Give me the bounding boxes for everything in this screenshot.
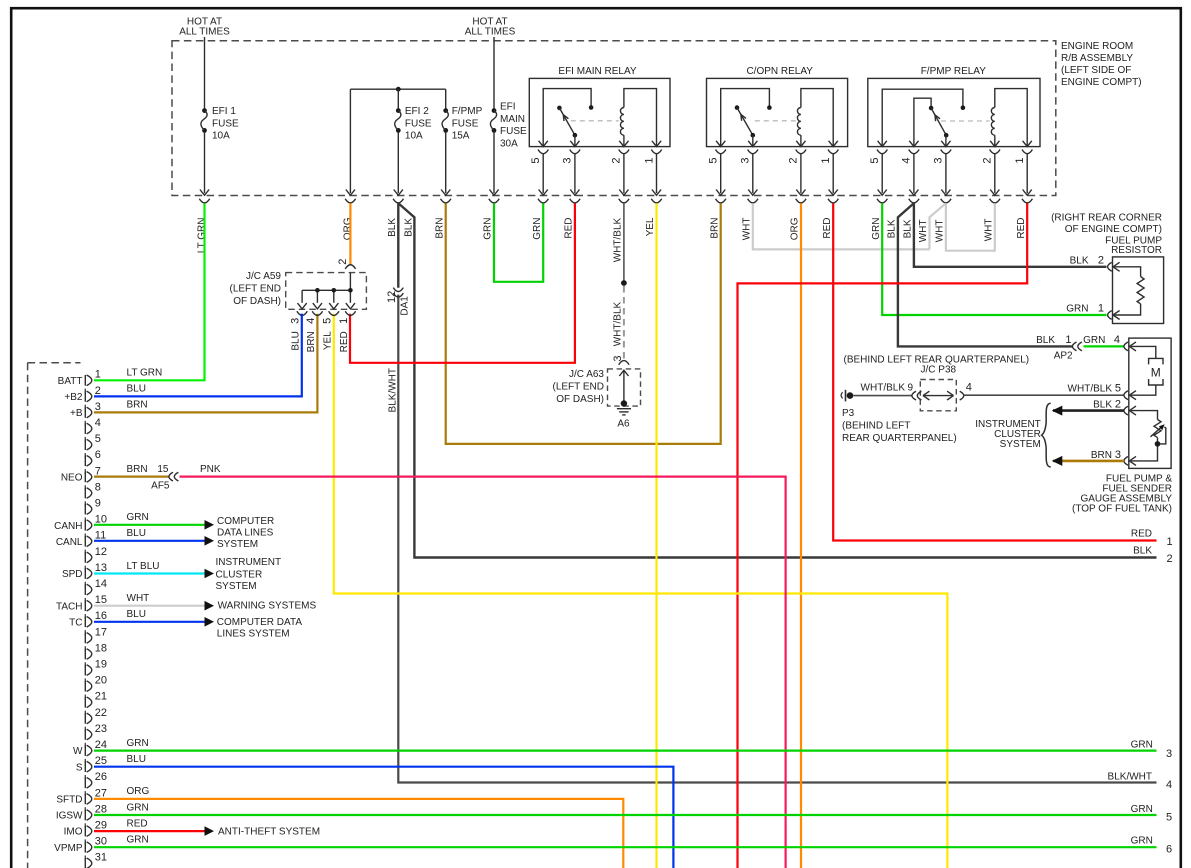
DA1 name label — [400, 296, 411, 316]
wire BLU CANL — [94, 540, 205, 542]
relay pin 1 exit at x=656.5 — [643, 141, 661, 203]
WHT/BLK rotated label upper — [613, 217, 624, 262]
svg-text:SPD: SPD — [62, 569, 83, 580]
right edge labels BLK/WHT 4 — [1108, 772, 1173, 792]
svg-text:2: 2 — [611, 158, 623, 164]
C/OPN relay switch blade — [737, 108, 753, 136]
fuse F/PMP 15A — [442, 108, 448, 133]
svg-text:MAIN: MAIN — [500, 114, 525, 125]
EFI MAIN fuse label — [500, 101, 527, 149]
svg-text:1: 1 — [643, 158, 655, 164]
warning systems label — [218, 601, 317, 612]
C/OPN relay switch bracket pin5 — [721, 89, 770, 147]
svg-text:9: 9 — [908, 382, 914, 393]
svg-text:ALL TIMES: ALL TIMES — [179, 26, 230, 37]
svg-text:1: 1 — [1167, 536, 1173, 548]
relay pin 3 exit at x=752.8 — [740, 141, 758, 203]
wire EFI 1 fuse to R/B exit — [204, 133, 206, 194]
svg-text:19: 19 — [95, 659, 107, 671]
J/C A59 exit arrow x=333.8 — [329, 303, 339, 315]
svg-text:4: 4 — [1114, 334, 1120, 346]
svg-text:+B2: +B2 — [64, 392, 83, 403]
wire WHT TACH — [94, 605, 205, 607]
WHT/BLK rotated label lower — [612, 301, 623, 346]
svg-text:30A: 30A — [500, 139, 518, 150]
svg-text:RED: RED — [127, 818, 148, 829]
relay F/PMP box — [868, 66, 1040, 147]
svg-text:RED: RED — [564, 218, 575, 239]
arrow at R/B exit EFI1 — [200, 190, 209, 196]
svg-text:OF ENGINE COMPT): OF ENGINE COMPT) — [1065, 224, 1162, 235]
svg-text:2: 2 — [1098, 255, 1104, 267]
EFI MAIN relay link dashed — [571, 120, 619, 122]
wire WHT F/PMP pin3 diagonal branch — [930, 203, 946, 249]
svg-text:GRN: GRN — [127, 802, 149, 813]
svg-text:BLU: BLU — [127, 609, 146, 620]
fuel sender wiper arrow — [1151, 424, 1166, 444]
hot at all times label (right) — [465, 16, 516, 37]
svg-text:3: 3 — [1166, 748, 1172, 760]
svg-text:COMPUTER DATA: COMPUTER DATA — [217, 617, 303, 628]
right edge labels GRN 5 — [1131, 804, 1173, 824]
wire GRN AP2 to fuel pump pin 4 — [1084, 345, 1125, 347]
svg-text:TACH: TACH — [56, 601, 82, 612]
F/PMP relay bracket pin4 — [914, 98, 931, 146]
wire LT BLU SPD — [94, 572, 205, 574]
arrow at R/B exit F/PMP fuse — [441, 190, 450, 196]
svg-text:BLK: BLK — [403, 218, 414, 237]
svg-text:INSTRUMENT: INSTRUMENT — [216, 557, 282, 568]
svg-text:SYSTEM: SYSTEM — [217, 539, 258, 550]
rotated wire colour labels below R/B box — [197, 217, 1027, 253]
svg-text:A6: A6 — [617, 419, 630, 430]
J/C P38 title — [921, 365, 957, 376]
svg-text:31: 31 — [95, 852, 107, 864]
svg-text:2: 2 — [982, 158, 994, 164]
svg-text:4: 4 — [966, 381, 972, 393]
P3 labels — [842, 408, 957, 444]
wire GRN F/PMP pin5 to resistor pin 1 — [882, 203, 1106, 315]
svg-text:RESISTOR: RESISTOR — [1111, 245, 1162, 256]
svg-text:R/B ASSEMBLY: R/B ASSEMBLY — [1061, 53, 1133, 64]
svg-text:YEL: YEL — [322, 331, 333, 350]
C/OPN relay pin3 stub — [752, 135, 754, 146]
junction dot on fuse bus — [396, 87, 401, 92]
J/C A59 exit arrow x=350.4 — [345, 303, 355, 315]
svg-text:BLK/WHT: BLK/WHT — [388, 368, 399, 412]
svg-text:BLU: BLU — [127, 528, 146, 539]
wire RED IMO to anti-theft — [94, 830, 205, 832]
svg-text:CLUSTER: CLUSTER — [216, 569, 263, 580]
svg-text:24: 24 — [95, 739, 107, 751]
svg-text:FUSE: FUSE — [405, 118, 432, 129]
svg-text:RED: RED — [339, 331, 350, 352]
svg-text:3: 3 — [933, 158, 945, 164]
junction connector J/C A59 dashed box — [286, 273, 367, 310]
svg-text:S: S — [76, 762, 83, 773]
svg-text:WHT/BLK: WHT/BLK — [613, 217, 624, 262]
svg-text:NEO: NEO — [61, 473, 83, 484]
relay pin 2 exit at x=994.8 — [982, 141, 1000, 203]
svg-text:30: 30 — [95, 836, 107, 848]
resistor pin 2 arc+arrow — [1108, 262, 1120, 271]
svg-text:LINES SYSTEM: LINES SYSTEM — [217, 629, 290, 640]
C/OPN relay link dashed — [755, 120, 796, 122]
BLK/WHT rotated label — [388, 368, 399, 412]
wire BLU J/C A59 pin3 upper stub — [301, 314, 303, 316]
J/C P38 entry arcs — [912, 391, 922, 400]
fuel pump pin arc y=410.6 — [1124, 406, 1136, 415]
C/OPN relay moving contact dot — [735, 105, 740, 110]
svg-text:1: 1 — [1014, 158, 1026, 164]
svg-text:5: 5 — [321, 318, 333, 324]
wire WHT/BLK J/C P38 to fuel pump pin 5 — [964, 394, 1125, 396]
computer data lines system label 2 — [217, 617, 303, 640]
wire BLU TC — [94, 621, 205, 623]
relay pin 5 exit at x=543.2 — [530, 141, 548, 203]
relay pin 5 exit at x=882.2 — [869, 141, 887, 203]
svg-text:5: 5 — [708, 158, 720, 164]
J/C P38 exit arc — [960, 391, 964, 400]
svg-text:5: 5 — [1166, 812, 1172, 824]
svg-text:11: 11 — [95, 530, 106, 542]
resistor pin 1 arc+arrow — [1108, 311, 1120, 320]
svg-text:F/PMP RELAY: F/PMP RELAY — [921, 66, 987, 77]
svg-text:AP2: AP2 — [1054, 351, 1073, 362]
motor symbol M — [1149, 358, 1163, 385]
svg-text:COMPUTER: COMPUTER — [217, 516, 274, 527]
wire GRN IGSW pin28 to right edge 5 — [94, 814, 1157, 816]
EFI MAIN relay fixed contact dot — [589, 105, 594, 110]
EFI MAIN relay pin3 stub — [574, 135, 576, 146]
bus wire feeding EFI2 and F/PMP fuses — [350, 88, 445, 90]
J/C A59 pin number labels — [290, 318, 350, 324]
svg-text:REAR QUARTERPANEL): REAR QUARTERPANEL) — [842, 433, 957, 444]
instrument cluster system label — [975, 419, 1041, 450]
svg-text:C/OPN RELAY: C/OPN RELAY — [746, 66, 813, 77]
svg-text:SFTD: SFTD — [56, 795, 82, 806]
svg-text:GRN: GRN — [127, 512, 149, 523]
wire WHT F/PMP pin3 to pin2 link — [946, 203, 995, 251]
WHT/BLK 9 labels — [861, 381, 972, 393]
DA1 pin 12 label — [386, 291, 398, 303]
P3 splice symbol — [841, 390, 853, 402]
fuel sender junction dot — [1155, 441, 1161, 447]
svg-text:BLK: BLK — [887, 219, 898, 238]
wire bus to ORG drop — [349, 89, 351, 193]
EFI MAIN relay switch bracket pin5 — [543, 89, 591, 147]
svg-text:FUSE: FUSE — [212, 118, 239, 129]
arrow IMO to anti-theft system — [205, 826, 215, 836]
wire bus to EFI 2 fuse — [397, 89, 399, 108]
right edge labels BLK 2 — [1133, 546, 1173, 566]
svg-text:10A: 10A — [405, 131, 423, 142]
instrument cluster brace — [1042, 403, 1051, 467]
svg-text:BRN: BRN — [306, 331, 317, 352]
arrow CANH to computer data lines — [205, 520, 215, 530]
svg-text:1: 1 — [1065, 334, 1071, 346]
svg-text:26: 26 — [95, 771, 107, 783]
anti-theft system label — [218, 827, 320, 838]
relay pin 2 exit at x=800.9 — [788, 141, 806, 203]
wire BLK/WHT via DA1 to right edge 4 — [398, 295, 1156, 783]
hot at all times label (left) — [179, 16, 230, 37]
F/PMP relay pin3 stub — [945, 135, 947, 146]
arrow CANL to computer data lines — [205, 536, 215, 546]
wire ORG C/OPN pin2 down — [800, 203, 802, 868]
wire WHT C/OPN pin3 to F/PMP branch — [753, 203, 930, 249]
F/PMP relay blade end dot — [944, 133, 949, 138]
wire BLU +B2 to J/C A59 pin 3 — [94, 314, 302, 397]
fuel pump pin arc y=346.4 — [1124, 342, 1136, 351]
ECM connector pins 1-31 — [85, 369, 107, 868]
F/PMP relay bracket pin5 — [882, 89, 963, 146]
svg-text:BRN: BRN — [127, 464, 148, 475]
svg-text:6: 6 — [1166, 844, 1172, 856]
svg-text:1: 1 — [338, 318, 350, 324]
wire BLK fuel pump pin 2 arrow — [1052, 406, 1124, 416]
computer data lines system label — [217, 516, 274, 550]
connector AF5 arcs — [169, 472, 179, 481]
svg-text:RED: RED — [1016, 218, 1027, 239]
svg-text:ORG: ORG — [342, 217, 353, 240]
svg-text:BLK/WHT: BLK/WHT — [1108, 772, 1152, 783]
svg-text:J/C P38: J/C P38 — [921, 365, 957, 376]
J/C A59 pin2 number — [337, 259, 349, 265]
connector DA1 arcs — [393, 288, 403, 297]
EFI MAIN relay coil — [620, 89, 656, 147]
svg-text:BLK: BLK — [903, 219, 914, 238]
svg-text:BATT: BATT — [58, 376, 83, 387]
engine room R/B assembly dashed box — [172, 41, 1056, 196]
wire WHT/BLK P3 to J/C P38 — [854, 395, 913, 397]
svg-text:3: 3 — [290, 318, 302, 324]
svg-text:28: 28 — [95, 803, 107, 815]
fuel pump pin arc y=395.2 — [1124, 391, 1136, 400]
splice dot on WHT/BLK — [621, 280, 627, 286]
svg-text:12: 12 — [386, 291, 398, 303]
svg-text:3: 3 — [95, 401, 101, 413]
wire BLK F/PMP pin4 branch to AP2 — [898, 203, 1072, 346]
svg-text:4: 4 — [901, 158, 913, 164]
svg-text:5: 5 — [95, 433, 101, 445]
svg-text:WHT: WHT — [918, 220, 929, 243]
svg-text:27: 27 — [95, 787, 107, 799]
wire EFI 2 fuse to R/B exit — [397, 133, 399, 194]
fuel pump motor circuit — [1131, 346, 1156, 395]
svg-text:WHT/BLK: WHT/BLK — [612, 301, 623, 346]
wire BLU S pin25 down — [94, 767, 673, 868]
svg-text:FUSE: FUSE — [452, 118, 479, 129]
EFI 2 fuse label — [405, 106, 432, 142]
wire RED F/PMP pin1 down-left-down — [738, 203, 1028, 868]
wire LT GRN EFI1 fuse to BATT pin 1 — [94, 203, 205, 380]
svg-text:WHT: WHT — [935, 220, 946, 243]
ground symbol A6 — [617, 409, 631, 415]
svg-text:GRN: GRN — [127, 738, 149, 749]
svg-text:CANH: CANH — [54, 521, 82, 532]
svg-text:SYSTEM: SYSTEM — [216, 581, 257, 592]
fuel pump resistor title — [1051, 213, 1162, 256]
svg-text:29: 29 — [95, 820, 107, 832]
arrow at R/B exit ORG — [346, 190, 355, 196]
svg-text:2: 2 — [95, 385, 101, 397]
svg-text:RED: RED — [822, 218, 833, 239]
J/C A59 wire colour labels — [291, 331, 350, 353]
svg-text:5: 5 — [869, 158, 881, 164]
resistor element — [1114, 267, 1145, 315]
F/PMP relay coil — [991, 89, 1027, 147]
svg-text:3: 3 — [740, 158, 752, 164]
fuse EFI 2 10A — [395, 108, 401, 133]
ECM connector pin names — [54, 376, 83, 854]
svg-text:TC: TC — [69, 617, 82, 628]
svg-text:10A: 10A — [212, 131, 230, 142]
svg-text:5: 5 — [1115, 383, 1121, 395]
svg-text:4: 4 — [305, 318, 317, 324]
svg-text:13: 13 — [95, 562, 107, 574]
svg-text:IGSW: IGSW — [56, 811, 83, 822]
svg-text:6: 6 — [95, 449, 101, 461]
svg-text:LT GRN: LT GRN — [197, 218, 208, 254]
F/PMP relay link dashed — [941, 120, 990, 122]
F/PMP relay moving contact dot — [929, 106, 934, 111]
A6 label — [617, 419, 630, 430]
svg-text:2: 2 — [337, 259, 349, 265]
relay pin 3 exit at x=574.9 — [562, 141, 580, 203]
feed wire to EFI MAIN fuse — [493, 37, 495, 109]
svg-text:14: 14 — [95, 578, 107, 590]
wire ORG fuse bus to J/C A59 pin 2 — [349, 203, 351, 265]
svg-text:25: 25 — [95, 755, 107, 767]
svg-text:IMO: IMO — [64, 827, 83, 838]
svg-text:BLK: BLK — [1070, 256, 1089, 267]
NEO connector labels — [151, 464, 221, 492]
relay pin 5 exit at x=720.7 — [708, 141, 726, 203]
quarterpanel note — [844, 355, 1030, 366]
svg-text:15: 15 — [157, 464, 169, 475]
F/PMP relay fixed contact dot — [961, 105, 966, 110]
svg-text:P3: P3 — [842, 408, 855, 419]
svg-text:1: 1 — [820, 158, 832, 164]
ground dot A6 — [621, 400, 627, 406]
svg-text:CANL: CANL — [56, 537, 83, 548]
svg-text:BLK: BLK — [387, 218, 398, 237]
wire BLK EFI2 fuse upper — [397, 203, 399, 288]
svg-text:4: 4 — [1166, 779, 1172, 791]
J/C A59 exit arrow x=317.4 — [312, 303, 322, 315]
svg-text:2: 2 — [1115, 399, 1121, 411]
wire YEL EFI MAIN pin1 down — [655, 203, 657, 868]
svg-text:(LEFT SIDE OF: (LEFT SIDE OF — [1061, 65, 1131, 76]
F/PMP relay switch blade — [931, 108, 946, 135]
svg-text:5: 5 — [530, 158, 542, 164]
arrow SPD to instrument cluster — [205, 569, 215, 579]
svg-text:EFI MAIN RELAY: EFI MAIN RELAY — [558, 66, 636, 77]
svg-text:ENGINE COMPT): ENGINE COMPT) — [1061, 77, 1142, 88]
fuel sender circuit — [1131, 411, 1161, 461]
connector cup below R/B at x=445.7 — [441, 199, 451, 203]
feed wire to EFI 1 fuse — [204, 37, 206, 109]
arrow at R/B exit EFI2 — [394, 190, 403, 196]
svg-text:GRN: GRN — [1131, 739, 1153, 750]
svg-text:LT BLU: LT BLU — [127, 561, 160, 572]
svg-text:BRN: BRN — [435, 218, 446, 239]
svg-text:YEL: YEL — [645, 217, 656, 236]
svg-text:ANTI-THEFT SYSTEM: ANTI-THEFT SYSTEM — [218, 827, 320, 838]
svg-text:BLU: BLU — [291, 331, 302, 350]
svg-text:WARNING SYSTEMS: WARNING SYSTEMS — [218, 601, 317, 612]
svg-text:GRN: GRN — [483, 217, 494, 239]
svg-text:AF5: AF5 — [151, 481, 170, 492]
svg-text:WHT: WHT — [742, 218, 753, 241]
svg-text:ALL TIMES: ALL TIMES — [465, 26, 516, 37]
ECM connector dashed box (left/top edges) — [28, 363, 81, 868]
C/OPN relay blade end dot — [751, 133, 756, 138]
EFI MAIN relay moving contact dot — [557, 106, 562, 111]
connector cup below R/B at x=398.3 — [393, 199, 403, 203]
junction connector J/C P38 dashed box — [920, 380, 956, 411]
svg-text:GRN: GRN — [1131, 804, 1153, 815]
connector cup below R/B at x=350.4 — [345, 199, 355, 203]
svg-text:WHT/BLK: WHT/BLK — [1068, 384, 1113, 395]
J/C A59 bus junction dots — [315, 288, 353, 293]
relay pin 1 exit at x=1027.2 — [1014, 141, 1032, 203]
svg-text:BRN: BRN — [709, 218, 720, 239]
svg-text:(RIGHT REAR CORNER: (RIGHT REAR CORNER — [1051, 213, 1162, 224]
F/PMP fuse label — [452, 106, 483, 142]
svg-text:EFI: EFI — [500, 101, 516, 112]
wire ORG SFTD pin27 down — [94, 799, 623, 868]
J/C A59 label — [230, 271, 282, 307]
svg-text:WHT: WHT — [984, 219, 995, 242]
wire GRN W pin24 to right edge 3 — [94, 749, 1157, 751]
left connector wire colour labels — [127, 368, 163, 846]
wire PNK AF5 down to bottom — [180, 477, 786, 868]
svg-text:BLU: BLU — [127, 384, 146, 395]
relay EFI MAIN box — [529, 66, 670, 147]
svg-text:7: 7 — [95, 465, 101, 477]
EFI MAIN relay switch blade — [559, 108, 575, 135]
engine room R/B assembly label — [1061, 41, 1142, 88]
fuse EFI MAIN 30A — [490, 108, 496, 133]
wire EFI MAIN fuse to R/B exit — [493, 133, 495, 194]
wire BRN F/PMP fuse to C/OPN pin 5 — [446, 203, 721, 444]
svg-text:BLK: BLK — [1036, 335, 1055, 346]
svg-text:J/C A59: J/C A59 — [246, 271, 281, 282]
svg-text:2: 2 — [1167, 553, 1173, 565]
svg-text:SYSTEM: SYSTEM — [1000, 439, 1041, 450]
svg-text:GRN: GRN — [1131, 836, 1153, 847]
svg-text:ORG: ORG — [127, 786, 150, 797]
svg-text:(LEFT END: (LEFT END — [553, 382, 605, 393]
svg-text:8: 8 — [95, 481, 101, 493]
svg-text:+B: +B — [70, 408, 83, 419]
junction connector J/C A63 dashed box — [608, 369, 641, 406]
svg-text:BLK: BLK — [1133, 546, 1152, 557]
C/OPN relay coil — [797, 89, 833, 147]
wire BLK EFI2 branch to right edge 2 — [399, 203, 1157, 557]
svg-text:BLK: BLK — [1093, 400, 1112, 411]
svg-text:VPMP: VPMP — [54, 843, 83, 854]
C/OPN relay fixed contact dot — [767, 105, 772, 110]
arrow TACH to warning systems — [205, 601, 215, 611]
arrow TC to computer data lines — [205, 617, 215, 627]
relay pin 1 exit at x=833.2 — [820, 141, 838, 203]
svg-text:M: M — [1151, 365, 1161, 379]
wire GRN CANH — [94, 524, 205, 526]
svg-text:BRN: BRN — [1091, 450, 1112, 461]
